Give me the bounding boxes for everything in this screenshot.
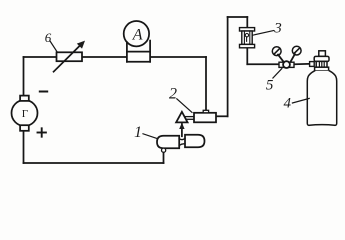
label 1 pointer — [143, 134, 157, 139]
generator G circle — [12, 96, 38, 131]
regulator 5 — [272, 46, 301, 78]
minus sign — [40, 91, 47, 93]
regulator right flange — [289, 62, 294, 67]
rheostat arrow diagonal — [54, 45, 81, 72]
svg-text:3: 3 — [273, 21, 282, 37]
svg-text:1: 1 — [134, 124, 142, 141]
pipe rotameter to elbow — [246, 48, 248, 65]
pipe elbow to regulator — [247, 63, 278, 65]
rheostat R (pos 6) body — [50, 41, 85, 72]
pipe top horizontal — [228, 16, 248, 18]
regulator ball — [283, 61, 290, 68]
wire up to electrolyzer terminal — [163, 151, 165, 163]
electrolyzer bottom terminal drop — [162, 148, 166, 152]
igniter box 2 — [177, 99, 216, 123]
rotameter 3 — [240, 28, 274, 48]
svg-text:A: A — [132, 27, 143, 44]
label 2 pointer — [177, 99, 192, 113]
svg-text:4: 4 — [283, 96, 291, 112]
wire top horizontal — [24, 56, 207, 58]
pipe from box 2 to riser — [216, 115, 228, 117]
electrolyzer vessel 1 — [143, 134, 205, 152]
rotameter float — [245, 34, 248, 37]
wire left vertical (generator branch) — [23, 57, 25, 163]
label 5 pointer — [273, 69, 282, 78]
cylinder valve knob — [319, 51, 326, 57]
generator bottom terminal — [20, 125, 29, 131]
svg-text:2: 2 — [169, 86, 177, 103]
gas cylinder 4 — [292, 51, 336, 126]
label 6 pointer — [50, 41, 57, 52]
funnel triangle — [176, 112, 194, 136]
wire down to igniter box 2 — [205, 57, 207, 110]
label 3 pointer — [252, 31, 273, 36]
cylinder connector nub — [310, 62, 315, 67]
plus sign — [38, 132, 46, 134]
ammeter A body — [124, 21, 150, 62]
label 4 pointer — [292, 98, 309, 103]
cylinder valve body — [316, 61, 327, 67]
pipe down to rotameter — [246, 17, 248, 28]
cylinder bottle body — [307, 71, 336, 126]
gauge left — [272, 47, 281, 56]
wire bottom horizontal — [24, 162, 164, 164]
svg-text:6: 6 — [45, 30, 52, 45]
funnel to box connector pipes — [185, 116, 194, 118]
svg-text:Г: Г — [22, 108, 28, 120]
cylinder valve band — [315, 67, 329, 71]
regulator left flange — [279, 62, 284, 67]
gauge right — [292, 46, 301, 55]
svg-text:5: 5 — [266, 78, 274, 94]
pipe regulator to cylinder valve — [295, 63, 312, 65]
pipe riser left — [227, 17, 229, 116]
cylinder valve flange — [314, 56, 329, 61]
generator top terminal — [20, 96, 29, 101]
gas flow arrow — [181, 124, 183, 136]
